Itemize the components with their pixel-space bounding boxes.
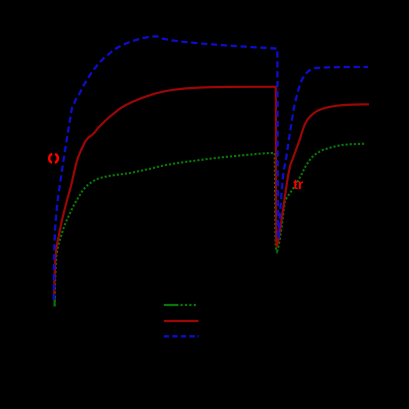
green dotted curve: photoresponse, lowest trace	[55, 144, 366, 306]
blue dashed curve: top trace	[54, 36, 368, 300]
green curve start stub	[54, 297, 56, 307]
svg-text:tr: tr	[293, 176, 304, 192]
legend sample: green dotted line	[164, 304, 179, 306]
legend sample: blue dashed line	[164, 335, 199, 337]
legend sample: red solid line	[164, 320, 199, 322]
red solid curve: middle trace	[54, 87, 369, 300]
marker O (red circle annotation at light-on)	[49, 154, 58, 163]
